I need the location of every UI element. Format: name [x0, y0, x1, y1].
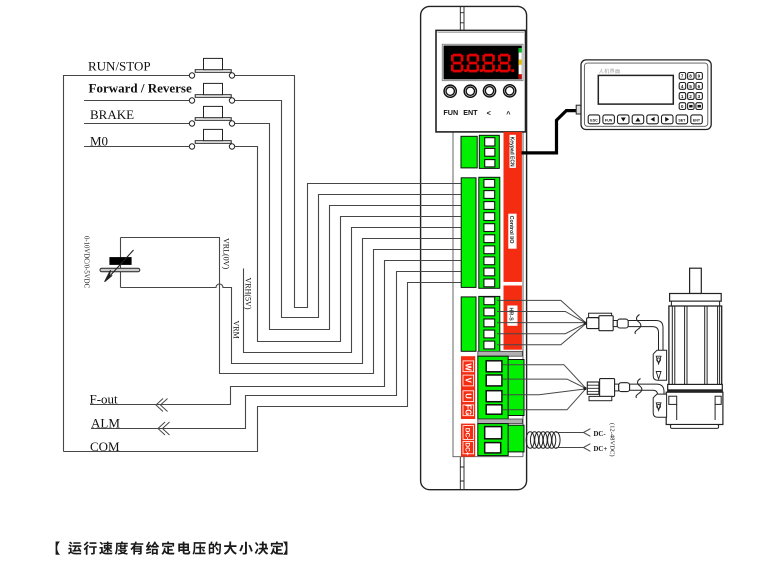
connector J2 (motor power)	[587, 379, 629, 401]
svg-text:0-10VDC/0-5VDC: 0-10VDC/0-5VDC	[83, 236, 90, 289]
keypad strip label	[509, 135, 516, 168]
svg-text:ENT: ENT	[463, 108, 478, 117]
svg-text:Control I/O: Control I/O	[508, 216, 514, 244]
svg-text:VRH(5V): VRH(5V)	[244, 278, 253, 310]
svg-text:Keypad ECN: Keypad ECN	[509, 137, 515, 167]
button ENT	[464, 85, 476, 97]
keypad cable (driver to HMI)	[522, 111, 577, 153]
svg-text:V: V	[464, 378, 473, 384]
svg-text:VRM: VRM	[232, 321, 241, 339]
svg-text:3: 3	[698, 94, 701, 99]
button FUN	[444, 85, 456, 97]
driver display panel	[436, 30, 526, 131]
svg-text:6: 6	[698, 84, 701, 89]
encoder cable wires (5) from driver to connector J1	[497, 300, 585, 322]
HMI numeric keypad	[679, 73, 702, 110]
encoder terminal block	[461, 296, 500, 351]
separator bar above DC terminals	[478, 419, 523, 424]
svg-text:Forward / Reverse: Forward / Reverse	[89, 80, 192, 95]
wire M0 left	[84, 146, 189, 148]
junction dot power	[583, 387, 586, 390]
svg-text:9: 9	[698, 74, 701, 79]
separator bar above motor terminals	[478, 351, 523, 356]
keypad port terminal block	[461, 135, 499, 168]
wire F-out to driver pin8	[90, 261, 461, 405]
wire Forward/Reverse switch to driver pin2	[235, 101, 461, 318]
7-segment LED display module	[442, 44, 523, 80]
DC power terminal block	[461, 424, 524, 457]
motor body	[669, 306, 722, 386]
svg-text:4: 4	[681, 84, 684, 89]
terminal labels DC- DC+	[463, 426, 474, 456]
HMI function key row	[588, 115, 702, 124]
servo driver U1 body	[421, 6, 527, 489]
wire BRAKE left	[84, 123, 189, 125]
wire VRM pot bottom (hop over VRL) to driver pin6	[121, 239, 461, 364]
svg-text:7: 7	[681, 74, 684, 79]
motor power terminal block W V U FG	[461, 356, 524, 419]
button labels FUN ENT < ^	[443, 108, 511, 118]
HMI title text	[599, 69, 620, 74]
junction dot encoder	[584, 322, 587, 325]
svg-text:<: <	[487, 109, 491, 118]
motor encoder housing	[666, 392, 723, 424]
break mark on F-out wire	[156, 399, 168, 412]
wire VRH to driver pin5	[244, 228, 461, 353]
wire M0 switch to driver pin4	[235, 147, 461, 342]
svg-text:DC-: DC-	[464, 428, 471, 440]
Control I/O terminal block	[461, 177, 500, 288]
wire DC- lead	[556, 429, 590, 437]
HMI operator panel	[581, 60, 711, 130]
encoder cable to motor	[628, 321, 663, 351]
pushbutton switch S4 M0	[189, 129, 234, 149]
encoder port red strip	[504, 286, 522, 350]
svg-text:VRL(0V): VRL(0V)	[221, 238, 230, 269]
svg-text:2: 2	[689, 94, 692, 99]
break squiggle on encoder cable	[635, 315, 641, 334]
svg-text:DC+: DC+	[594, 446, 608, 453]
motor M1 shaft	[690, 268, 702, 293]
svg-text:FUN: FUN	[605, 118, 613, 122]
driver top DIN seam	[460, 6, 464, 30]
wire DC+ lead	[556, 444, 590, 452]
driver recess panel lines	[453, 30, 523, 456]
driver bottom DIN seam	[460, 457, 464, 490]
keypad red strip	[504, 132, 522, 282]
svg-text:ENT: ENT	[693, 118, 701, 122]
wire RUN/STOP switch to driver pin1	[235, 76, 461, 308]
encoder strip label	[507, 306, 517, 326]
svg-text:ESC: ESC	[590, 118, 598, 122]
potentiometer VR (speed setting)	[100, 238, 140, 288]
break mark on ALM wire	[158, 422, 170, 435]
button left-arrow	[483, 85, 495, 97]
pushbutton switch S3 BRAKE	[189, 106, 234, 126]
svg-text:DC+: DC+	[464, 442, 471, 455]
wire COM from bus to driver pin10	[64, 283, 461, 452]
svg-text:U: U	[464, 393, 473, 399]
power cable to motor	[630, 384, 664, 394]
power cable bracket	[653, 394, 666, 417]
svg-text:HR-S: HR-S	[508, 308, 514, 322]
svg-text:SET: SET	[678, 118, 686, 122]
svg-text:8: 8	[689, 74, 692, 79]
wire ALM to driver pin9	[91, 272, 461, 429]
pushbutton switch S1 RUN/STOP	[189, 58, 234, 78]
HMI LCD screen	[598, 75, 673, 104]
svg-text:FUN: FUN	[443, 108, 458, 117]
caption: speed determined by given voltage	[56, 542, 288, 555]
svg-text:RUN/STOP: RUN/STOP	[88, 59, 151, 74]
svg-text:BRAKE: BRAKE	[90, 107, 134, 122]
DC supply coiled cable	[526, 432, 560, 449]
wire VRL pot top to driver pin7	[121, 238, 461, 374]
svg-text:FG: FG	[464, 405, 473, 416]
motor power wires (4) from driver to connector J2	[503, 365, 585, 388]
svg-text:DC-: DC-	[594, 431, 607, 438]
svg-text:(12-48VDC): (12-48VDC)	[608, 423, 615, 457]
wire Forward/Reverse left	[84, 100, 189, 102]
svg-text:5: 5	[689, 84, 692, 89]
LED status indicator strip	[519, 48, 522, 79]
button up-arrow	[504, 85, 516, 97]
svg-text:1: 1	[681, 94, 684, 99]
pushbutton switch S2 Forward/Reverse	[189, 83, 234, 103]
LED digits 8.8.8.8	[451, 54, 467, 73]
encoder cable bracket	[653, 350, 666, 380]
terminal labels W V U FG	[463, 361, 474, 416]
wire RUN/STOP left + common bus left side	[64, 76, 190, 452]
motor bottom flange	[668, 384, 723, 392]
connector J1 (encoder)	[587, 313, 629, 331]
svg-text:0: 0	[681, 104, 684, 109]
svg-text:W: W	[464, 363, 473, 371]
wire BRAKE switch to driver pin3	[235, 124, 461, 330]
Control I/O strip label	[508, 214, 517, 249]
motor top flange	[670, 294, 722, 302]
break squiggle on power cable	[636, 379, 642, 398]
HMI connector tab	[576, 105, 581, 114]
